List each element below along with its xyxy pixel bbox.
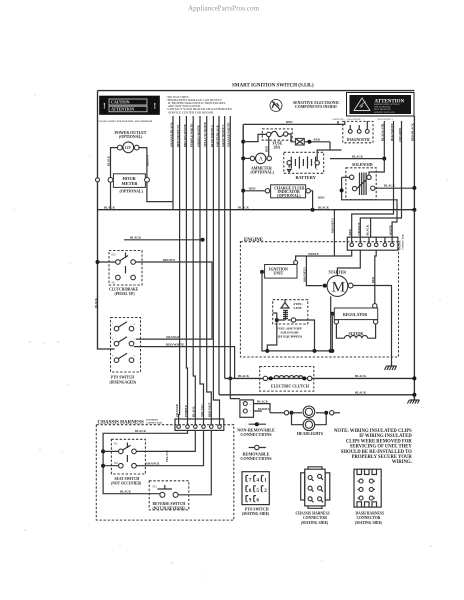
svg-text:ENGINE: ENGINE <box>244 238 263 243</box>
svg-text:BLACK: BLACK <box>257 399 269 403</box>
svg-text:FOR HANDLING: FOR HANDLING <box>374 106 391 109</box>
svg-text:WHITE/BLACK: WHITE/BLACK <box>215 124 219 147</box>
svg-text:ORANGE: ORANGE <box>357 222 361 235</box>
svg-text:YEL/VIO: YEL/VIO <box>166 449 169 462</box>
svg-text:REGULATOR: REGULATOR <box>343 313 367 317</box>
svg-text:ATTENTION: ATTENTION <box>111 107 134 112</box>
svg-text:BLACK STR: BLACK STR <box>381 123 385 141</box>
svg-text:AppliancePartsPros.com: AppliancePartsPros.com <box>188 5 260 13</box>
svg-text:BLACK: BLACK <box>238 374 250 378</box>
svg-text:BLACK: BLACK <box>355 374 367 378</box>
svg-text:NO: NO <box>153 485 157 488</box>
svg-text:PURPLE: PURPLE <box>184 405 188 417</box>
svg-text:12V: 12V <box>125 146 132 150</box>
svg-text:(NOT OCCUPIED): (NOT OCCUPIED) <box>111 482 142 486</box>
svg-text:MAGNETO: MAGNETO <box>303 266 306 282</box>
svg-text:BROWN/WHITE: BROWN/WHITE <box>183 124 187 147</box>
svg-text:NO: NO <box>114 462 118 465</box>
svg-text:BROWN: BROWN <box>163 258 176 262</box>
svg-text:CONNECTIONS: CONNECTIONS <box>240 432 272 437</box>
svg-text:SOLENOID: SOLENOID <box>352 163 373 167</box>
svg-text:DIAGNOSTIC: DIAGNOSTIC <box>347 138 371 142</box>
svg-text:SERVICE CENTER FOR REPAIR.: SERVICE CENTER FOR REPAIR. <box>168 110 214 114</box>
svg-text:RED: RED <box>314 138 321 142</box>
svg-text:(OPTIONAL): (OPTIONAL) <box>119 135 143 139</box>
svg-text:RED: RED <box>249 187 256 191</box>
svg-text:BLACK: BLACK <box>107 155 110 166</box>
svg-text:LINE: LINE <box>294 306 303 310</box>
svg-text:ORANGE/WHITE: ORANGE/WHITE <box>227 122 231 147</box>
svg-text:(AMMETER +): (AMMETER +) <box>332 118 346 121</box>
svg-text:2: 2 <box>264 488 267 494</box>
svg-text:CONNECTOR: CONNECTOR <box>146 421 162 424</box>
svg-text:RED/WHITE ST: RED/WHITE ST <box>176 125 180 147</box>
svg-text:ORANGE: ORANGE <box>166 335 180 339</box>
svg-text:BROWN: BROWN <box>147 155 150 166</box>
svg-text:20A: 20A <box>274 146 281 150</box>
svg-text:8: 8 <box>249 488 252 494</box>
svg-text:BATTERY: BATTERY <box>296 175 317 180</box>
svg-text:(NOT IN REVERSE): (NOT IN REVERSE) <box>153 507 187 511</box>
svg-text:BLACK: BLACK <box>135 429 147 433</box>
svg-text:UNIT: UNIT <box>274 272 284 276</box>
svg-text:(DIAGNOSTIC -): (DIAGNOSTIC -) <box>377 118 393 121</box>
svg-text:5: 5 <box>256 488 259 494</box>
svg-text:CONNECTOR: CONNECTOR <box>402 234 405 250</box>
svg-text:CONNECTOR: CONNECTOR <box>303 516 327 520</box>
svg-text:DASH HARNESS: DASH HARNESS <box>356 512 385 516</box>
svg-text:A: A <box>259 157 264 163</box>
svg-text:COLOR CONNECTOR POSITION - KEY: COLOR CONNECTOR POSITION - KEY PROBLEM <box>98 121 154 123</box>
svg-text:6: 6 <box>256 498 259 504</box>
svg-text:BLACK: BLACK <box>192 406 196 417</box>
svg-text:NC: NC <box>114 443 118 446</box>
svg-text:(MATING SIDE): (MATING SIDE) <box>301 521 329 525</box>
svg-text:HEADLIGHTS: HEADLIGHTS <box>297 432 323 436</box>
svg-text:RED: RED <box>286 120 293 124</box>
svg-text:NO: NO <box>112 254 116 257</box>
svg-text:ORANGE: ORANGE <box>175 404 179 417</box>
svg-text:BLACK: BLACK <box>120 490 132 494</box>
svg-text:GRAY/WHITE S: GRAY/WHITE S <box>221 124 225 147</box>
svg-text:PURPLE/WHITE: PURPLE/WHITE <box>190 124 194 147</box>
svg-text:BLACK: BLACK <box>384 184 396 188</box>
svg-text:YEL/VIO: YEL/VIO <box>200 404 204 417</box>
svg-text:BLUE/WHITE S: BLUE/WHITE S <box>210 125 214 147</box>
svg-text:(DISENGAGED): (DISENGAGED) <box>110 380 137 384</box>
svg-text:RED/BLACK: RED/BLACK <box>411 122 415 141</box>
svg-text:ELECTRIC CLUTCH: ELECTRIC CLUTCH <box>271 385 309 389</box>
svg-text:(MATING SIDE): (MATING SIDE) <box>355 521 383 525</box>
svg-text:CONNECTOR: CONNECTOR <box>357 516 381 520</box>
svg-text:CLUTCH/BRAKE: CLUTCH/BRAKE <box>109 287 139 291</box>
svg-text:PURPLE: PURPLE <box>258 407 270 411</box>
svg-text:GREEN/WHITE: GREEN/WHITE <box>196 125 200 147</box>
svg-text:RED: RED <box>265 146 268 152</box>
svg-text:BLACK: BLACK <box>130 236 142 240</box>
svg-text:CAUTION: CAUTION <box>111 100 130 105</box>
svg-text:BLACK: BLACK <box>366 224 370 235</box>
svg-text:ORG/RED: ORG/RED <box>398 127 402 142</box>
svg-text:CONNECTIONS: CONNECTIONS <box>240 456 272 461</box>
svg-text:ELECTROSTATIC: ELECTROSTATIC <box>374 108 392 111</box>
svg-text:BLACK: BLACK <box>95 297 98 308</box>
svg-text:BLACK: BLACK <box>355 391 367 395</box>
svg-text:SMART IGNITION SWITCH (S.I.R.): SMART IGNITION SWITCH (S.I.R.) <box>232 84 314 89</box>
svg-text:1: 1 <box>264 478 267 484</box>
svg-text:(MATING SIDE): (MATING SIDE) <box>242 512 270 516</box>
svg-text:7: 7 <box>249 478 252 484</box>
svg-text:ORANGE/BLACK: ORANGE/BLACK <box>169 122 173 147</box>
svg-text:WIRING.: WIRING. <box>392 460 412 465</box>
svg-text:NC: NC <box>112 282 116 285</box>
svg-text:RED: RED <box>372 277 375 283</box>
svg-text:RED: RED <box>318 196 325 200</box>
svg-text:WHITE: WHITE <box>389 225 393 236</box>
svg-text:ORANGE: ORANGE <box>146 462 160 466</box>
svg-text:BLACK: BLACK <box>318 206 330 210</box>
svg-text:M: M <box>332 280 345 296</box>
svg-text:BLACK: BLACK <box>104 206 116 210</box>
svg-text:RED: RED <box>348 228 352 235</box>
svg-text:REVERSE SWITCH: REVERSE SWITCH <box>153 502 186 506</box>
svg-text:!: ! <box>103 102 106 111</box>
svg-text:CHASSIS HARNESS: CHASSIS HARNESS <box>296 512 330 516</box>
svg-text:4: 4 <box>256 478 259 484</box>
svg-text:RED/WHT: RED/WHT <box>208 402 212 417</box>
svg-text:BLK/WHITE: BLK/WHITE <box>390 123 394 141</box>
svg-text:SENSITIVE DEVICES: SENSITIVE DEVICES <box>374 112 396 114</box>
svg-text:WHITE: WHITE <box>308 252 319 256</box>
svg-text:RED/WHITE: RED/WHITE <box>166 342 184 346</box>
svg-text:PTO SWITCH: PTO SWITCH <box>111 376 134 380</box>
svg-text:CHASSIS HARNESS: CHASSIS HARNESS <box>98 420 144 425</box>
svg-text:COMPONENTS INSIDE!: COMPONENTS INSIDE! <box>295 105 338 109</box>
svg-text:!: ! <box>154 102 157 111</box>
svg-text:MAGNETO: MAGNETO <box>331 217 334 233</box>
svg-text:(OPTIONAL): (OPTIONAL) <box>120 189 144 193</box>
svg-text:(IF EQUIPPED): (IF EQUIPPED) <box>278 335 302 339</box>
svg-text:METER: METER <box>122 181 139 186</box>
svg-text:(OPTIONAL): (OPTIONAL) <box>251 170 275 174</box>
svg-text:9: 9 <box>249 498 252 504</box>
svg-text:(OPTIONAL): (OPTIONAL) <box>277 194 301 198</box>
svg-text:BLACK: BLACK <box>352 154 364 158</box>
svg-text:OBSERVE PRECAUTIONS: OBSERVE PRECAUTIONS <box>374 103 400 106</box>
svg-text:PTO SWITCH: PTO SWITCH <box>245 508 269 512</box>
svg-text:(DIAGNOSTIC +): (DIAGNOSTIC +) <box>347 118 364 121</box>
svg-text:(PEDAL UP): (PEDAL UP) <box>115 292 136 296</box>
svg-text:SEAT SWITCH: SEAT SWITCH <box>115 477 140 481</box>
svg-text:YELLOW/WHITE: YELLOW/WHITE <box>203 122 207 147</box>
